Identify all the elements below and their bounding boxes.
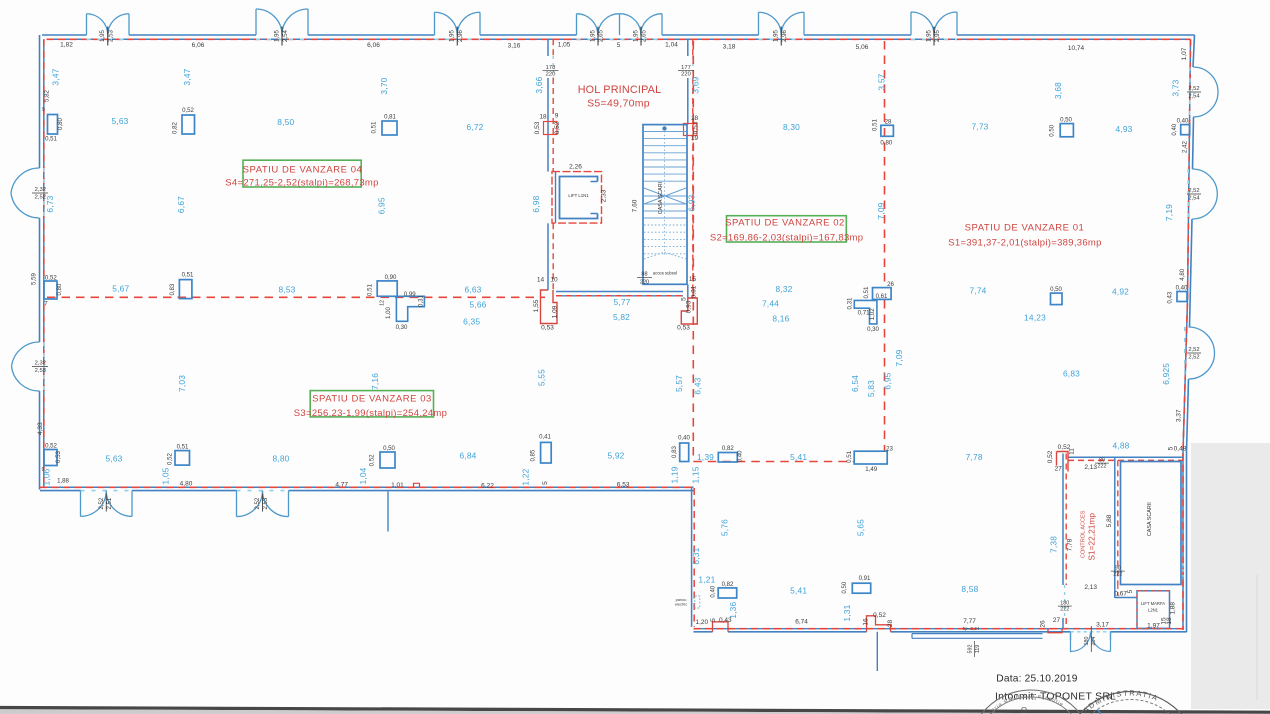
svg-text:27: 27 — [1053, 617, 1061, 624]
svg-text:L2N1: L2N1 — [1148, 608, 1159, 613]
svg-text:0,83: 0,83 — [671, 445, 678, 457]
svg-text:178: 178 — [546, 65, 556, 71]
svg-text:220: 220 — [546, 72, 556, 78]
scan bottom dark edge — [0, 706, 1270, 714]
svg-text:S3=256,23-1,99(stalpi)=254,24m: S3=256,23-1,99(stalpi)=254,24mp — [294, 408, 447, 419]
double door bottom 2,52/2,51 — [81, 491, 133, 517]
column C2 — [182, 115, 195, 134]
svg-text:7,73: 7,73 — [971, 122, 988, 132]
faint page edge line — [1256, 575, 1258, 700]
svg-text:3,57: 3,57 — [877, 73, 887, 90]
svg-text:8,53: 8,53 — [278, 284, 295, 294]
svg-text:3,70: 3,70 — [379, 77, 389, 94]
svg-text:119: 119 — [975, 645, 981, 654]
svg-text:7,74: 7,74 — [969, 286, 986, 296]
svg-text:6,43: 6,43 — [693, 377, 703, 394]
svg-text:1,95: 1,95 — [449, 29, 456, 41]
dashes across top door openings — [87, 38, 130, 40]
svg-text:0,40: 0,40 — [737, 450, 744, 462]
column C19 — [854, 451, 887, 464]
svg-text:5,82: 5,82 — [44, 89, 51, 101]
svg-text:2,52: 2,52 — [1188, 86, 1199, 92]
double door top 1,95/2,95 — [911, 12, 957, 35]
panou electric dashed box — [695, 596, 700, 608]
double door right 2,52/2,54 — [1192, 169, 1217, 194]
corner pier — [1057, 452, 1069, 472]
svg-text:0,50: 0,50 — [1050, 286, 1062, 293]
svg-text:6,74: 6,74 — [795, 619, 808, 626]
svg-text:10: 10 — [550, 277, 558, 284]
svg-text:0,52: 0,52 — [873, 612, 886, 619]
svg-text:7,78: 7,78 — [966, 452, 983, 462]
svg-text:SPATIU DE VANZARE 02: SPATIU DE VANZARE 02 — [725, 217, 845, 228]
svg-text:26: 26 — [1040, 620, 1047, 628]
svg-text:592: 592 — [968, 645, 974, 654]
svg-text:0,67: 0,67 — [1114, 591, 1127, 598]
control acces top wall — [1068, 456, 1183, 458]
svg-text:2,54: 2,54 — [282, 29, 289, 41]
svg-text:S2=169,86-2,03(stalpi)=167,83m: S2=169,86-2,03(stalpi)=167,83mp — [710, 232, 863, 243]
svg-text:8,16: 8,16 — [772, 314, 789, 324]
double door left 2,32/2,52 — [11, 168, 40, 193]
svg-text:8,30: 8,30 — [783, 122, 800, 132]
column C5 — [179, 280, 192, 299]
stair dotted treads — [644, 225, 686, 254]
svg-text:1,95: 1,95 — [773, 29, 780, 41]
HOL left wall notch pier — [544, 122, 558, 135]
svg-text:4,88: 4,88 — [1112, 440, 1129, 450]
svg-text:0,31: 0,31 — [417, 294, 424, 306]
svg-text:SPATIU DE VANZARE 03: SPATIU DE VANZARE 03 — [312, 393, 432, 404]
svg-text:0,51: 0,51 — [45, 136, 57, 143]
svg-text:0,52: 0,52 — [45, 275, 57, 282]
svg-text:14: 14 — [537, 277, 545, 284]
svg-text:16: 16 — [863, 618, 870, 626]
wall: bottom lower region — [694, 631, 713, 633]
room label S03 — [310, 391, 433, 417]
L pier on divider — [396, 296, 424, 321]
svg-text:6,95: 6,95 — [883, 372, 893, 389]
svg-text:6,73: 6,73 — [45, 195, 55, 212]
svg-text:0,61: 0,61 — [691, 285, 698, 298]
svg-text:1,19: 1,19 — [669, 466, 679, 483]
svg-text:0,40: 0,40 — [1176, 285, 1188, 292]
svg-text:14,23: 14,23 — [1024, 313, 1046, 323]
column C15 — [380, 452, 395, 468]
svg-text:4,77: 4,77 — [335, 482, 348, 489]
svg-text:2,52: 2,52 — [254, 497, 261, 509]
svg-text:0,51: 0,51 — [863, 286, 870, 298]
svg-text:4,93: 4,93 — [1115, 124, 1132, 134]
svg-text:0,61: 0,61 — [876, 293, 888, 300]
column C8 — [881, 125, 894, 136]
svg-text:23: 23 — [886, 445, 893, 452]
column C13 — [44, 450, 57, 466]
loading platform — [912, 634, 1043, 639]
notches on bottom wall — [713, 622, 729, 632]
downspout line below wall — [387, 492, 389, 532]
svg-text:1,04: 1,04 — [358, 467, 368, 484]
svg-text:1,88: 1,88 — [57, 478, 69, 485]
zone divider S4/S3 — [47, 296, 545, 298]
svg-text:0,52: 0,52 — [554, 121, 561, 134]
zone divider x884 — [884, 41, 886, 287]
svg-text:0,52: 0,52 — [1047, 450, 1054, 463]
svg-text:12: 12 — [380, 300, 386, 306]
svg-text:18: 18 — [691, 115, 699, 122]
column C11 — [1181, 125, 1190, 135]
svg-text:0,82: 0,82 — [722, 581, 734, 588]
svg-text:5: 5 — [1168, 446, 1175, 450]
svg-text:5,92: 5,92 — [607, 451, 624, 461]
svg-text:3,18: 3,18 — [723, 44, 736, 51]
svg-text:5: 5 — [681, 297, 688, 301]
svg-text:7,19: 7,19 — [1164, 204, 1174, 221]
svg-text:2,53: 2,53 — [35, 368, 46, 374]
svg-text:2,96: 2,96 — [781, 29, 788, 41]
svg-text:27: 27 — [1055, 466, 1063, 473]
svg-text:1,09: 1,09 — [552, 305, 559, 318]
svg-text:26: 26 — [887, 281, 894, 288]
HOL right wall — [687, 39, 689, 56]
svg-text:6,06: 6,06 — [192, 42, 205, 49]
svg-text:0,51: 0,51 — [366, 283, 373, 295]
lift L1N1 outer — [552, 172, 602, 224]
svg-text:2,54: 2,54 — [1188, 93, 1200, 99]
svg-text:5,67: 5,67 — [112, 283, 129, 293]
svg-text:S5=49,70mp: S5=49,70mp — [587, 98, 650, 110]
svg-text:2,96: 2,96 — [457, 29, 464, 41]
bottom service door 180/204 — [1071, 632, 1111, 640]
svg-text:CASA SCARI: CASA SCARI — [658, 182, 664, 214]
svg-text:3,47: 3,47 — [51, 68, 61, 85]
svg-text:180: 180 — [1084, 637, 1090, 646]
svg-text:1,95: 1,95 — [632, 29, 639, 41]
svg-text:3,47: 3,47 — [182, 68, 192, 85]
double door top 1,95/2,96 — [435, 12, 481, 35]
svg-text:0,50: 0,50 — [1049, 124, 1056, 136]
svg-text:5,55: 5,55 — [536, 369, 546, 386]
svg-text:9: 9 — [42, 107, 45, 113]
svg-text:1,05: 1,05 — [160, 467, 170, 484]
column C3 — [382, 121, 397, 135]
svg-text:2,52: 2,52 — [98, 497, 105, 509]
svg-text:0,53: 0,53 — [55, 450, 62, 462]
svg-text:5,82: 5,82 — [613, 312, 630, 322]
svg-text:3,68: 3,68 — [1053, 82, 1063, 99]
svg-text:4,80: 4,80 — [180, 481, 193, 488]
svg-text:1,05: 1,05 — [558, 42, 571, 49]
svg-text:1,06: 1,06 — [41, 468, 51, 485]
casa scarii box — [1121, 462, 1182, 585]
svg-text:6,84: 6,84 — [459, 451, 476, 461]
column C10 — [1051, 293, 1063, 305]
svg-text:1,49: 1,49 — [865, 466, 877, 473]
svg-text:0,50: 0,50 — [1060, 117, 1072, 124]
svg-text:3,66: 3,66 — [534, 76, 544, 93]
HOL entrance double doors — [577, 14, 663, 35]
svg-text:3,37: 3,37 — [1176, 409, 1183, 422]
column C9 — [1060, 124, 1073, 137]
svg-text:0,80: 0,80 — [880, 140, 892, 147]
svg-text:0,40: 0,40 — [710, 585, 717, 597]
svg-text:0,53: 0,53 — [693, 121, 700, 134]
svg-text:0,30: 0,30 — [867, 326, 879, 333]
svg-text:0,41: 0,41 — [539, 434, 551, 441]
svg-text:7,60: 7,60 — [632, 199, 639, 212]
svg-text:SPATIU DE VANZARE 01: SPATIU DE VANZARE 01 — [965, 223, 1085, 234]
column C16 — [541, 442, 552, 463]
svg-text:0,50: 0,50 — [841, 581, 848, 593]
svg-text:5,41: 5,41 — [790, 585, 807, 595]
svg-text:6,22: 6,22 — [481, 483, 494, 490]
svg-text:6,95: 6,95 — [377, 197, 387, 214]
svg-text:8,32: 8,32 — [775, 284, 792, 294]
svg-text:222: 222 — [1098, 464, 1107, 470]
svg-text:28: 28 — [885, 119, 892, 126]
svg-text:8,58: 8,58 — [961, 584, 978, 594]
svg-text:6,35: 6,35 — [463, 317, 480, 327]
svg-text:0,82: 0,82 — [722, 445, 734, 452]
svg-text:0,48: 0,48 — [1174, 446, 1187, 453]
svg-text:0,51: 0,51 — [872, 118, 879, 130]
blue tick bottom — [1098, 710, 1101, 714]
staircase box — [643, 125, 687, 285]
svg-text:5: 5 — [542, 481, 549, 485]
svg-text:1,02: 1,02 — [869, 308, 876, 320]
column C18 — [718, 453, 737, 463]
svg-text:0,81: 0,81 — [384, 114, 396, 121]
svg-text:6,83: 6,83 — [1063, 368, 1080, 378]
svg-text:2,13: 2,13 — [1084, 464, 1097, 471]
svg-text:1,55: 1,55 — [533, 299, 540, 312]
svg-text:2,42: 2,42 — [1182, 140, 1189, 152]
svg-text:0,82: 0,82 — [172, 121, 179, 133]
HOL left wall — [547, 39, 549, 56]
svg-text:6,06: 6,06 — [367, 42, 380, 49]
svg-text:0,90: 0,90 — [385, 274, 397, 281]
svg-text:2,26: 2,26 — [569, 164, 582, 171]
wall: left outer — [39, 35, 41, 168]
wall: bottom-left inner — [40, 486, 694, 488]
svg-text:5,63: 5,63 — [111, 116, 128, 126]
svg-text:S4=271,25-2,52(stalpi)=268,73m: S4=271,25-2,52(stalpi)=268,73mp — [225, 178, 378, 189]
svg-text:0,30: 0,30 — [396, 324, 408, 331]
svg-text:220: 220 — [640, 280, 649, 286]
wall: top inner blue+red dashes — [47, 38, 1191, 40]
svg-text:19: 19 — [691, 135, 699, 142]
svg-text:5,63: 5,63 — [105, 453, 122, 463]
control acces left wall — [1062, 454, 1064, 586]
svg-text:0,83: 0,83 — [169, 283, 176, 295]
inner wall — [1114, 457, 1116, 598]
svg-text:7,16: 7,16 — [370, 373, 380, 390]
column C17 — [680, 443, 689, 462]
svg-text:3,17: 3,17 — [1096, 622, 1109, 629]
svg-text:3,73: 3,73 — [1171, 79, 1181, 96]
svg-text:CASA SCARII: CASA SCARII — [1147, 502, 1153, 536]
column C14 — [175, 451, 190, 466]
svg-text:2,52: 2,52 — [1188, 347, 1199, 353]
svg-text:0,51: 0,51 — [177, 444, 189, 451]
wall: bottom-left outer — [40, 490, 81, 492]
svg-text:2,51: 2,51 — [106, 497, 113, 509]
svg-text:6,53: 6,53 — [617, 481, 630, 488]
svg-text:3,16: 3,16 — [508, 43, 521, 50]
svg-text:5,76: 5,76 — [720, 519, 730, 536]
svg-text:7,77: 7,77 — [963, 618, 976, 625]
HOL bottom-left pier — [541, 290, 558, 324]
svg-text:2,33: 2,33 — [601, 189, 608, 202]
svg-text:0,51: 0,51 — [370, 121, 377, 133]
svg-text:1,21: 1,21 — [698, 574, 715, 584]
svg-text:18: 18 — [1166, 617, 1173, 625]
svg-text:O: O — [1021, 706, 1027, 714]
svg-text:220: 220 — [681, 72, 691, 78]
svg-text:3,69: 3,69 — [691, 76, 701, 93]
column C20 — [852, 583, 870, 593]
double door right 2,52/2,52 — [1189, 327, 1215, 353]
zone divider x693 — [692, 41, 694, 462]
svg-text:0,52: 0,52 — [167, 452, 174, 464]
svg-text:2,54: 2,54 — [1188, 195, 1200, 201]
svg-text:0,85: 0,85 — [530, 449, 537, 461]
svg-text:0,93: 0,93 — [686, 300, 693, 313]
svg-text:1,31: 1,31 — [842, 604, 852, 621]
svg-text:1,88: 1,88 — [1170, 602, 1177, 615]
svg-text:0,43: 0,43 — [1167, 291, 1174, 303]
svg-text:5,77: 5,77 — [613, 297, 630, 307]
column C21 — [718, 588, 737, 598]
zone divider y461 — [693, 461, 855, 463]
svg-text:8,50: 8,50 — [277, 117, 294, 127]
svg-text:1,15: 1,15 — [691, 466, 701, 483]
svg-text:11: 11 — [1069, 448, 1076, 455]
svg-text:5,88: 5,88 — [1106, 514, 1113, 527]
svg-text:acces subsol: acces subsol — [653, 271, 677, 276]
double door right 2,52/2,54 — [1193, 67, 1218, 92]
svg-text:0,31: 0,31 — [846, 297, 853, 309]
svg-text:5: 5 — [1127, 589, 1134, 593]
svg-text:5,66: 5,66 — [469, 300, 486, 310]
room label S02 — [727, 216, 847, 242]
HOL bottom-right pier — [681, 298, 697, 324]
svg-text:0,52: 0,52 — [45, 443, 57, 450]
svg-text:7,09: 7,09 — [894, 349, 904, 366]
svg-text:5,59: 5,59 — [31, 272, 38, 284]
svg-text:2,13: 2,13 — [1084, 584, 1097, 591]
svg-text:5,06: 5,06 — [856, 44, 869, 51]
svg-text:2,95: 2,95 — [934, 29, 941, 41]
svg-text:2,65: 2,65 — [641, 29, 648, 41]
svg-text:1,22: 1,22 — [521, 468, 531, 485]
svg-text:1,97: 1,97 — [1147, 623, 1160, 630]
notch on bottom wall — [414, 483, 420, 487]
svg-text:5: 5 — [710, 618, 717, 622]
svg-text:6,72: 6,72 — [466, 122, 483, 132]
svg-text:8,80: 8,80 — [272, 453, 289, 463]
svg-text:2,65: 2,65 — [598, 29, 605, 41]
svg-text:1,95: 1,95 — [925, 29, 932, 41]
svg-text:LIFT L1N1: LIFT L1N1 — [568, 193, 589, 198]
svg-text:1,00: 1,00 — [385, 306, 392, 318]
svg-text:28: 28 — [887, 620, 894, 628]
svg-text:1,39: 1,39 — [697, 452, 714, 462]
svg-text:6,54: 6,54 — [850, 375, 860, 392]
svg-text:HOL PRINCIPAL: HOL PRINCIPAL — [578, 84, 662, 96]
svg-text:5,65: 5,65 — [855, 519, 865, 536]
svg-text:5,41: 5,41 — [790, 452, 807, 462]
svg-text:7,03: 7,03 — [177, 375, 187, 392]
stair treads — [644, 132, 686, 182]
svg-text:1,20: 1,20 — [695, 619, 708, 626]
double door top 1,95/2,96 — [759, 12, 805, 35]
svg-text:0,91: 0,91 — [859, 575, 871, 582]
HOL right wall notch pier — [684, 124, 698, 136]
svg-text:SPATIU DE VANZARE 04: SPATIU DE VANZARE 04 — [243, 164, 363, 175]
svg-text:0,40: 0,40 — [1171, 123, 1178, 135]
lift marfa box — [1137, 591, 1170, 629]
column C12 — [1177, 292, 1187, 302]
svg-text:1,95: 1,95 — [589, 29, 596, 41]
svg-text:0,52: 0,52 — [368, 454, 375, 466]
double door bottom 2,52/2,53 — [237, 491, 289, 517]
svg-text:0,53: 0,53 — [534, 121, 541, 134]
double door top 1,95/2,54 — [256, 9, 308, 35]
svg-text:7,09: 7,09 — [876, 202, 886, 219]
stamp left — [968, 690, 1094, 714]
svg-text:204: 204 — [1091, 637, 1097, 646]
svg-text:18: 18 — [539, 114, 547, 121]
svg-text:hp=2,24: hp=2,24 — [963, 626, 980, 631]
svg-text:S1=391,37-2,01(stalpi)=389,36m: S1=391,37-2,01(stalpi)=389,36mp — [948, 238, 1101, 249]
svg-text:7,38: 7,38 — [1049, 536, 1059, 553]
below casa scarii — [1115, 597, 1137, 599]
wall: left inner — [43, 39, 45, 487]
column C1 — [48, 115, 58, 135]
svg-text:1,95: 1,95 — [99, 29, 106, 41]
svg-text:6,93: 6,93 — [687, 194, 697, 211]
wall: right outer — [1193, 35, 1195, 67]
svg-text:1,04: 1,04 — [665, 42, 678, 49]
svg-text:0,80: 0,80 — [57, 117, 64, 129]
room label S04 — [243, 160, 361, 187]
svg-text:2,53: 2,53 — [262, 497, 269, 509]
svg-text:88: 88 — [641, 272, 647, 278]
stair cross — [644, 188, 686, 204]
svg-text:0,40: 0,40 — [1177, 118, 1189, 125]
lift L1N1 inner — [560, 177, 598, 219]
column C7 — [873, 288, 892, 300]
svg-text:0,53: 0,53 — [541, 325, 554, 332]
svg-text:15: 15 — [689, 276, 697, 283]
svg-text:6,31: 6,31 — [691, 547, 701, 564]
svg-text:222: 222 — [1113, 572, 1122, 578]
wall: top outer — [42, 34, 87, 36]
svg-text:electric: electric — [675, 602, 687, 607]
svg-text:0,52: 0,52 — [182, 107, 194, 114]
svg-text:0,40: 0,40 — [678, 434, 690, 441]
svg-text:1,82: 1,82 — [60, 42, 73, 49]
svg-text:177: 177 — [681, 65, 691, 71]
svg-text:6,98: 6,98 — [531, 195, 541, 212]
svg-text:1,07: 1,07 — [1181, 47, 1188, 60]
svg-text:4,92: 4,92 — [1112, 286, 1129, 296]
svg-text:6,63: 6,63 — [464, 284, 481, 294]
svg-text:6,925: 6,925 — [1161, 363, 1171, 385]
svg-text:0,80: 0,80 — [56, 283, 63, 295]
HOL bottom wall — [556, 291, 683, 293]
